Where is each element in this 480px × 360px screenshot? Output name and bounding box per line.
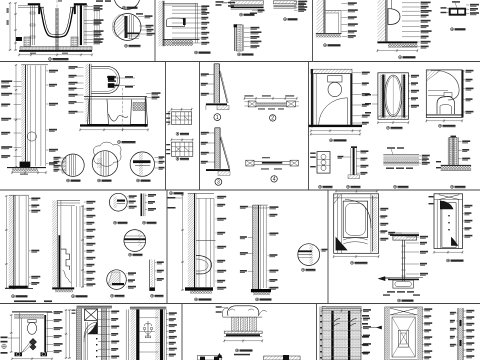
tub rounded rect <box>343 201 367 237</box>
detail circle tub corner <box>114 14 141 41</box>
right wall black bar <box>80 5 82 45</box>
niche elev left dims <box>65 310 67 358</box>
h2 leaders left <box>248 206 253 208</box>
wall base block <box>20 162 31 167</box>
wc plan dims <box>12 358 52 360</box>
tee support top bar <box>393 236 417 240</box>
wall section h2 hatch <box>253 205 259 289</box>
shower door base <box>378 116 409 119</box>
mosaic tree bar 2 <box>348 311 350 360</box>
h1 leaders right <box>216 196 217 198</box>
door swing arc <box>319 98 348 125</box>
partition plan 2 dim <box>244 97 297 99</box>
niche elev dark wedge <box>88 321 98 334</box>
caption tub plan <box>351 261 354 264</box>
console scroll squiggles <box>229 309 254 311</box>
marker circle 4 <box>271 176 277 182</box>
wall band detail leaders <box>244 27 250 29</box>
glass base 1 <box>206 103 227 105</box>
wall layer lines <box>29 66 31 167</box>
elev2 hatch column 1 <box>131 310 136 360</box>
detail circle top partial <box>115 0 140 9</box>
elev2 right frame lines <box>163 310 165 360</box>
shower center dots <box>448 215 449 216</box>
wc tank plan <box>328 76 342 82</box>
partition plan 4 panel <box>254 160 290 162</box>
divider V7 <box>181 304 183 360</box>
tub leader line verticals <box>94 10 96 40</box>
ceiling detail leaders left <box>216 1 224 3</box>
partition plan 4 left post <box>246 160 254 166</box>
bathtub center pipe <box>55 8 57 50</box>
shower inner panel <box>442 203 456 248</box>
g3a leaders <box>126 196 129 198</box>
wc niche top right labels <box>228 2 235 4</box>
niche elev x-brace box <box>85 309 98 321</box>
detail d3 labels <box>155 157 159 159</box>
wc fixture profile <box>167 18 185 26</box>
grid table 1 <box>171 112 191 125</box>
narrow wall section right <box>458 308 463 360</box>
mosaic tree bar 1 <box>331 311 333 360</box>
elev2 leaders right <box>166 313 168 315</box>
caption interior elevation <box>439 124 442 127</box>
g1 vdim <box>5 196 7 288</box>
mosaic dim top <box>322 310 361 312</box>
wc plan leaders right <box>47 311 54 313</box>
elev2 black bar 2 <box>160 310 163 360</box>
bottom cut drawing right <box>264 356 301 360</box>
divider V6 <box>316 304 318 360</box>
caption g3a <box>114 221 117 224</box>
bottom cut drawing left <box>198 355 222 360</box>
bathroom left wall poche <box>311 69 313 127</box>
divider H1 <box>0 61 480 63</box>
grab bar fixture plan <box>449 8 466 16</box>
post base <box>348 175 360 179</box>
divider V4 <box>312 0 314 62</box>
mosaic top lines <box>326 307 361 309</box>
caption g2 <box>72 295 75 298</box>
panel elev labels far left <box>362 315 369 317</box>
caption shower elev <box>447 259 450 262</box>
shelf profile <box>325 9 341 11</box>
caption top of panel H <box>170 192 173 195</box>
tee base labels below <box>387 291 395 292</box>
bathtub deck right slab <box>74 3 87 5</box>
console base bars <box>224 331 262 333</box>
masonry base slab <box>20 47 92 51</box>
wc floor <box>80 124 148 126</box>
elev2 top gray band <box>130 307 166 310</box>
caption d2 <box>98 179 101 182</box>
wc s-trap curve <box>109 114 129 121</box>
partition plan 4 right post <box>290 160 298 166</box>
wc plan bowl <box>27 322 36 334</box>
wc dim below <box>80 129 148 131</box>
h1 shelf line <box>196 239 216 241</box>
panel elev inner rects <box>392 317 415 357</box>
marker circle 1 <box>214 114 221 121</box>
caption sandwich detail <box>284 18 287 21</box>
bathroom dims <box>311 130 360 132</box>
g2 squiggle <box>63 270 72 282</box>
svg-text:2: 2 <box>271 116 274 122</box>
marker circle 3 <box>215 179 222 186</box>
panel elev top brace <box>390 308 417 315</box>
wall dim lines <box>15 65 17 167</box>
caption g3e <box>151 294 154 297</box>
urinal floor <box>377 41 417 43</box>
tub corner wedge <box>336 238 347 251</box>
floor shelf niche <box>316 32 342 34</box>
masonry pier left <box>24 37 31 47</box>
h2 dark edge <box>258 205 260 289</box>
ceiling sandwich detail <box>231 1 264 5</box>
niche elev dot column <box>96 332 97 333</box>
shower elev top x-brace <box>439 195 460 200</box>
shower elev dim <box>434 251 463 253</box>
urinal dims <box>377 50 417 52</box>
shower door arch glass <box>385 75 402 117</box>
wc plan top gray band <box>14 315 44 319</box>
post leaders <box>356 151 359 153</box>
detail circle h3 <box>298 244 320 266</box>
table2 labels <box>166 144 170 145</box>
h1 urinal <box>196 255 212 274</box>
caption urinal <box>399 56 402 59</box>
caption floor buildup <box>394 185 397 188</box>
interior elevation shelf lines <box>428 90 448 92</box>
bathroom section ceiling hatch <box>311 69 352 73</box>
divider V2c <box>166 190 168 304</box>
bathtub centerline <box>56 0 58 53</box>
h2 top ticks <box>253 204 268 206</box>
svg-text:1: 1 <box>216 115 219 121</box>
interior right poche <box>461 70 463 118</box>
leader grid wc niche <box>172 6 201 8</box>
bathtub basin profile <box>41 7 74 37</box>
caption shelf niche <box>324 44 327 47</box>
caption g3d <box>111 294 114 297</box>
floor buildup detail <box>383 154 419 156</box>
wc cistern D profile <box>91 66 119 93</box>
divider V2b <box>199 62 201 191</box>
h2 leaders right <box>268 207 269 209</box>
detail d1 labels <box>60 157 66 159</box>
divider V1 <box>154 0 156 62</box>
caption ceiling detail <box>240 13 243 16</box>
detail cloud d2 <box>93 142 121 166</box>
h1 left dim <box>182 195 184 290</box>
console dims <box>224 340 262 342</box>
grab bar leaders <box>441 7 447 8</box>
wall section g1 hatch <box>9 195 14 289</box>
urinal fixture <box>388 9 400 25</box>
detail circle labels right <box>138 16 144 18</box>
shower door dim <box>378 122 409 124</box>
g2 ceiling lines <box>57 199 80 201</box>
urinal leaders right <box>402 2 420 4</box>
g1 leaders right <box>29 198 31 200</box>
shower door frame <box>378 73 409 120</box>
caption towel bar <box>319 185 322 188</box>
divider V2 <box>165 62 167 191</box>
leader labels right of tub <box>84 5 93 7</box>
caption g3c <box>129 253 132 256</box>
g3d leaders <box>126 273 127 275</box>
divider V5 <box>327 190 329 304</box>
console top scroll <box>228 306 259 316</box>
h2 base <box>251 289 271 292</box>
wall section g2 hatch <box>52 200 57 287</box>
wc cistern valve fittings <box>108 76 115 81</box>
shower door right jamb <box>402 75 406 118</box>
partition plan 2 right post <box>287 101 296 107</box>
caption post <box>347 185 350 188</box>
bathtub deck left slab <box>28 3 40 5</box>
wc plan leaders left <box>1 337 8 339</box>
shower elev frame <box>434 194 463 249</box>
left wall stud lines <box>30 5 32 45</box>
glass tilt 3 <box>220 137 229 169</box>
caption wc section <box>118 141 121 144</box>
bathroom floor <box>309 125 363 127</box>
g2 dark edge <box>59 235 61 287</box>
h1 ceiling lines <box>188 192 214 194</box>
tall wall section hatch band <box>21 65 25 167</box>
interior elevation frame <box>426 70 462 118</box>
wc labels left <box>76 66 84 68</box>
floor line wc niche <box>163 38 199 40</box>
tub plan frame <box>334 194 379 254</box>
masonry pier right <box>71 37 78 47</box>
panel elev arrow left <box>377 326 382 329</box>
detail g3e wall edge <box>151 260 153 288</box>
urinal wall hatch <box>377 0 386 41</box>
shelf niche wall hatch <box>317 0 325 33</box>
g3b leaders <box>145 194 147 196</box>
towel bar labels <box>310 153 316 154</box>
wc plan cistern <box>28 320 36 323</box>
g2 base <box>52 287 74 289</box>
left wall section labels right <box>46 70 49 72</box>
urinal wall wide hatch <box>188 193 195 290</box>
partition plan 2 left post <box>248 101 256 107</box>
wc corner dark mark <box>183 18 186 25</box>
tub plan left band <box>337 194 339 254</box>
marker circle 2 <box>270 115 276 121</box>
wc plan right wall bar <box>44 315 46 352</box>
wc plan basin diamonds <box>30 339 37 346</box>
left wall section labels left <box>14 81 22 83</box>
caption shower door <box>387 126 390 129</box>
glass tilt 1 <box>219 71 227 103</box>
panel elev leaders right <box>422 309 423 311</box>
interior dim <box>426 120 462 122</box>
left deck support block <box>16 37 22 41</box>
divider H2 <box>0 189 480 191</box>
floor slab line <box>19 50 92 52</box>
shower door left jamb <box>380 75 385 118</box>
caption d1 <box>67 179 70 182</box>
shower bottom wedge <box>451 238 457 246</box>
divider V3 <box>308 62 310 191</box>
wc plan top beam lines <box>12 310 52 312</box>
shower top wedge <box>440 201 453 209</box>
elev2 black bar 1 <box>136 310 139 360</box>
wall band detail lower <box>236 25 242 51</box>
ceiling detail leaders right <box>252 10 257 12</box>
wc plan bottom poche <box>15 352 23 356</box>
caption wall band detail <box>238 53 241 56</box>
glass panel section 3 <box>215 128 220 169</box>
labels top edge panel A <box>96 0 103 2</box>
partition 4 sub labels <box>261 168 269 169</box>
caption table1 <box>176 132 179 135</box>
wall base column <box>450 137 458 165</box>
floor buildup labels above <box>387 147 395 148</box>
wc plan level symbol <box>2 344 6 348</box>
shower door leaders <box>408 75 410 77</box>
tub plan right hatch band <box>372 196 377 252</box>
table1 labels <box>166 113 170 114</box>
mosaic wall elevation <box>322 307 361 360</box>
wall hatch band wc niche <box>158 1 163 46</box>
interior elevation mirror oval <box>431 70 459 100</box>
g1 base <box>9 286 28 288</box>
post section detail <box>353 148 355 175</box>
caption d3 <box>137 179 140 182</box>
niche elev left hatch column <box>77 309 82 360</box>
interior floor <box>426 114 463 116</box>
glass1 leaders <box>208 74 214 76</box>
grid table 2 <box>171 142 192 156</box>
tub plan leaders <box>379 208 380 210</box>
tee base assembly <box>385 277 423 279</box>
g2 vdim <box>82 206 84 287</box>
detail circle g3d <box>107 270 127 290</box>
niche elev right hatch column <box>102 309 107 360</box>
bathroom right wall poche <box>350 74 352 127</box>
interior elevation corner hatch <box>426 70 441 81</box>
shower elev side bands <box>436 200 438 249</box>
caption h3 <box>302 268 305 271</box>
caption bathroom section <box>330 139 333 142</box>
panel elev side bands <box>385 307 390 360</box>
h1 layer lines <box>198 198 200 287</box>
tee base arrow <box>379 277 385 281</box>
glass3 leaders <box>208 132 215 134</box>
interior leaders right <box>464 70 465 72</box>
svg-text:4: 4 <box>273 177 276 183</box>
caption bathtub detail <box>49 58 52 61</box>
caption tee support <box>398 299 401 302</box>
shower elev leaders left <box>429 196 434 197</box>
wc plan walls <box>19 313 21 353</box>
tee leaders <box>406 236 420 238</box>
elev2 candelabra fixture <box>147 321 149 338</box>
caption table2 <box>176 157 179 160</box>
detail circle d1 <box>62 154 84 176</box>
mosaic grid lines <box>322 312 361 314</box>
wc pedestal legs <box>88 100 109 125</box>
towel bar fixture detail <box>317 152 330 174</box>
detail circle caption <box>125 44 128 47</box>
wall base strip <box>441 165 471 170</box>
g2 leaders right <box>84 201 86 203</box>
tub plan top band <box>334 197 379 199</box>
mosaic leaders right <box>361 309 362 311</box>
g2 layer lines <box>70 206 72 287</box>
bathroom leaders right <box>352 72 361 74</box>
console north arrow <box>217 354 222 358</box>
shelf niche leaders <box>342 3 348 5</box>
tee support stem <box>401 240 403 281</box>
detail g3b wall edge <box>141 194 143 217</box>
niche elev inner verticals <box>85 322 87 360</box>
elev2 left frame lines <box>125 310 127 360</box>
caption console <box>236 349 239 352</box>
shower door labels left <box>365 94 371 96</box>
niche elev leaders right <box>98 311 111 313</box>
tub drain curves <box>343 238 367 240</box>
caption g3b <box>143 221 146 224</box>
caption wall base <box>451 185 454 188</box>
wall fixture circle <box>27 132 36 141</box>
wc plan door line <box>22 341 32 353</box>
detail circle g3c <box>124 230 146 252</box>
caption g1 <box>12 295 15 298</box>
dimension line below tub <box>19 54 92 56</box>
console leaders left <box>216 306 222 307</box>
detail circle g3a <box>109 193 127 211</box>
panel elevation frame <box>385 307 422 360</box>
partition plan 2 panel bar <box>256 103 287 106</box>
elev2 horizontal leaders <box>139 317 158 319</box>
narrow wall leaders right <box>463 310 466 312</box>
floor hatch wc niche <box>163 40 193 46</box>
g1 layer lines <box>18 196 20 288</box>
wc labels right <box>146 93 151 95</box>
panel elev diagonals <box>392 317 415 357</box>
caption h1 <box>195 298 198 301</box>
svg-text:3: 3 <box>217 180 220 186</box>
caption top circle <box>123 6 126 9</box>
mosaic left edge ticks <box>319 307 321 360</box>
sandwich detail labels right <box>294 1 298 3</box>
divider H3 <box>0 303 480 305</box>
wc bowl plan <box>328 82 342 96</box>
wc right edge line <box>144 97 146 127</box>
wc centerline <box>122 88 124 132</box>
partition 2 sub labels <box>258 108 265 109</box>
floor buildup leaders right <box>419 155 421 157</box>
floor buildup labels below <box>386 168 394 169</box>
g3e leaders <box>155 262 156 264</box>
top right sandwich detail <box>273 1 296 4</box>
interior wc profile <box>437 97 455 115</box>
elev2 hatch column 2 <box>155 310 159 360</box>
ceiling lines <box>163 2 198 4</box>
console balusters <box>232 317 235 331</box>
niche elev top gray band <box>77 306 113 309</box>
caption h2 <box>256 298 259 301</box>
bathtub rim lines <box>40 6 44 8</box>
glass base 3 <box>206 169 230 171</box>
left vertical dimension <box>15 3 17 50</box>
bathroom wall lines <box>313 74 315 125</box>
